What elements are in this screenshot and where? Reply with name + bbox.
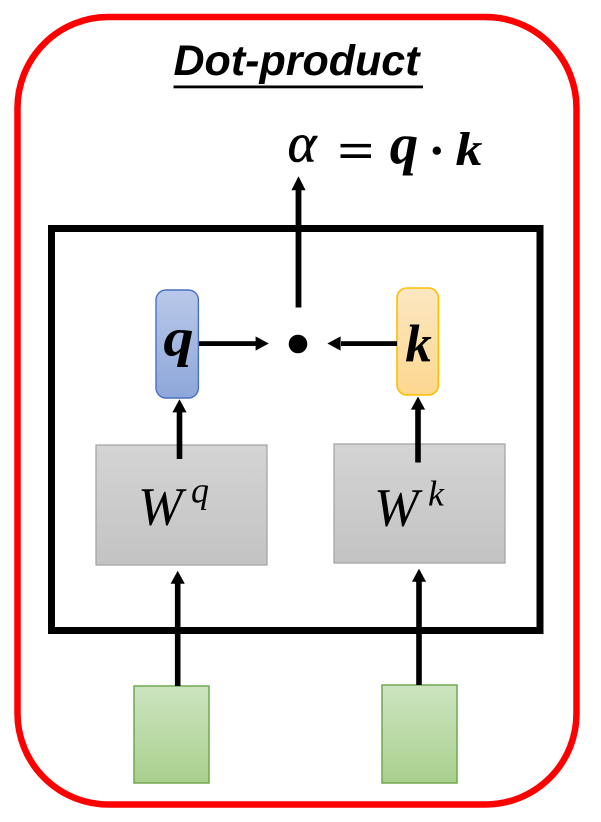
green input box 2 <box>382 685 457 783</box>
blue rounded box q <box>156 290 198 398</box>
svg-text:Dot-product: Dot-product <box>174 37 422 85</box>
svg-text:k: k <box>405 316 432 374</box>
svg-text:W: W <box>138 477 187 537</box>
black inner box <box>52 229 541 631</box>
gray box W^k <box>334 444 505 563</box>
svg-text:k: k <box>456 124 483 177</box>
svg-text:k: k <box>428 474 445 514</box>
yellow rounded box k <box>397 288 438 395</box>
arrow dot to formula (vertical) <box>291 176 305 307</box>
svg-text:q: q <box>390 114 419 177</box>
central dot <box>289 335 308 354</box>
arrow W^k to k box <box>411 397 425 463</box>
svg-text:α: α <box>288 113 318 174</box>
gray box W^q <box>96 445 267 565</box>
title underline <box>174 86 424 89</box>
formula equals <box>341 144 372 158</box>
arrow W^q to q box <box>172 399 186 459</box>
arrow k to dot (horizontal) <box>327 336 397 350</box>
formula dot operator <box>433 147 441 155</box>
arrow q to dot (horizontal) <box>199 336 269 350</box>
svg-text:W: W <box>374 478 423 538</box>
svg-text:q: q <box>191 471 209 511</box>
green input box 1 <box>134 686 209 783</box>
arrow green2 to W^k <box>412 569 426 685</box>
svg-text:q: q <box>163 308 193 367</box>
arrow green1 to W^q <box>171 571 185 686</box>
